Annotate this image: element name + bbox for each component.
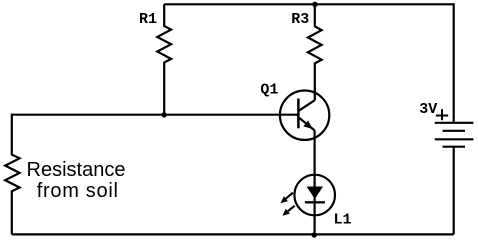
- svg-text:L1: L1: [334, 211, 352, 228]
- junction R1-base node: [162, 112, 167, 117]
- wire emitter to LED to bottom rail: [314, 130, 316, 234]
- wire base rail (middle horizontal): [12, 114, 298, 116]
- svg-text:3V: 3V: [419, 101, 437, 118]
- svg-text:R3: R3: [291, 11, 309, 28]
- resistor R1: [157, 4, 171, 114]
- junction LED-bottom node: [312, 232, 317, 237]
- wire right rail to battery +: [453, 3, 455, 122]
- svg-text:Q1: Q1: [260, 81, 278, 98]
- svg-text:R1: R1: [139, 11, 157, 28]
- svg-text:from soil: from soil: [37, 180, 119, 202]
- wire top rail: [164, 3, 454, 5]
- svg-text:Resistance: Resistance: [27, 159, 126, 181]
- resistor soil probe (left): [5, 114, 19, 235]
- led L1: [281, 175, 336, 216]
- battery BT1 3V: [435, 123, 474, 147]
- wire bottom rail: [12, 233, 454, 235]
- label + polarity: [436, 109, 448, 120]
- resistor R3: [308, 4, 322, 100]
- transistor Q1: [280, 91, 329, 140]
- wire battery - to bottom rail: [453, 147, 455, 235]
- junction top node (R3 tap): [312, 2, 317, 7]
